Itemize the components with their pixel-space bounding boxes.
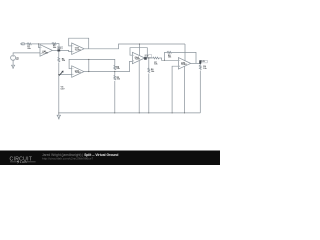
svg-text:LAB: LAB <box>20 160 28 164</box>
svg-text:TL081: TL081 <box>75 72 82 74</box>
svg-text:TL081: TL081 <box>42 53 49 55</box>
svg-text:TL081: TL081 <box>135 59 142 61</box>
svg-text:TL081: TL081 <box>75 49 82 51</box>
svg-text:http://circuitlab.com/c2nn29bb: http://circuitlab.com/c2nn29bb986ce7 <box>42 156 94 160</box>
svg-text:TL081: TL081 <box>181 64 188 66</box>
